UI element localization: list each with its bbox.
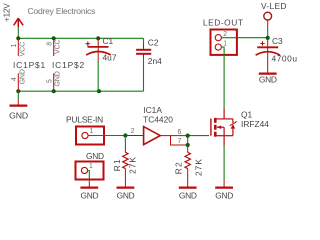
- pin 6 output stub: [160, 135, 188, 137]
- svg-text:V-LED: V-LED: [261, 1, 287, 11]
- svg-text:8: 8: [47, 42, 54, 46]
- svg-text:2: 2: [223, 31, 227, 38]
- svg-text:1: 1: [90, 128, 94, 135]
- wire PULSE-IN to node: [89, 135, 126, 137]
- wire source to ground: [223, 146, 225, 181]
- svg-text:GND: GND: [117, 190, 135, 200]
- svg-text:7: 7: [178, 138, 182, 145]
- ground GND left: [9, 91, 28, 120]
- wire GND connector to ground: [88, 171, 89, 181]
- junction bottom rail at C1: [97, 89, 101, 93]
- connector PULSE-IN: [66, 115, 104, 145]
- junction top rail at pin8: [52, 36, 56, 40]
- wire V-LED to junction: [267, 30, 269, 38]
- ground GND input: [80, 180, 98, 200]
- svg-text:GND: GND: [81, 190, 99, 200]
- svg-text:PULSE-IN: PULSE-IN: [66, 115, 103, 125]
- connector GND input: [76, 151, 105, 180]
- wire +12V stub: [17, 27, 19, 38]
- ground GND Q1: [215, 180, 233, 200]
- wire bottom GND rail: [18, 90, 143, 92]
- svg-text:GND: GND: [259, 75, 277, 85]
- svg-text:TC4420: TC4420: [143, 115, 173, 125]
- svg-text:GND: GND: [9, 110, 28, 120]
- svg-text:GND: GND: [215, 190, 233, 200]
- wire gate: [188, 135, 209, 137]
- connector LED-OUT: [203, 17, 244, 55]
- IC1P$2 pin 5 GND: [47, 71, 62, 91]
- junction bottom rail at GND: [16, 89, 20, 93]
- wire drain from LED-OUT pin1: [222, 47, 225, 109]
- svg-text:GND: GND: [19, 69, 26, 84]
- svg-text:GND: GND: [179, 190, 197, 200]
- svg-text:VCC: VCC: [55, 39, 62, 54]
- svg-text:R2: R2: [174, 161, 184, 174]
- junction bottom rail at pin5: [52, 89, 56, 93]
- wire top VCC rail: [18, 37, 143, 39]
- svg-text:2: 2: [131, 128, 135, 135]
- svg-text:5: 5: [47, 79, 54, 83]
- svg-text:C2: C2: [148, 38, 159, 48]
- IC1P$2 pin 8 VCC: [47, 38, 62, 56]
- svg-text:27K: 27K: [127, 156, 137, 174]
- svg-text:Codrey Electronics: Codrey Electronics: [28, 6, 96, 16]
- junction V-LED node: [266, 36, 270, 40]
- svg-text:27K: 27K: [193, 158, 203, 176]
- supply V-LED symbol: [261, 1, 287, 30]
- IC1P$1 pin 4 GND: [11, 69, 26, 91]
- svg-text:VCC: VCC: [19, 42, 26, 57]
- capacitor C3: [256, 36, 298, 73]
- svg-text:GND: GND: [55, 71, 62, 86]
- junction top rail at +12V: [16, 36, 20, 40]
- wire output node vertical: [187, 136, 189, 145]
- svg-text:1: 1: [89, 163, 93, 170]
- capacitor C1: [86, 36, 117, 91]
- svg-text:LED-OUT: LED-OUT: [203, 17, 244, 27]
- svg-text:6: 6: [178, 129, 182, 136]
- svg-text:C3: C3: [272, 36, 283, 46]
- svg-text:C1: C1: [103, 36, 114, 46]
- ground GND R1: [117, 188, 135, 201]
- junction top rail at C1: [96, 36, 100, 40]
- svg-text:R1: R1: [112, 158, 122, 171]
- wire LED-OUT pin2 to V-LED node: [222, 37, 268, 39]
- svg-text:IRFZ44: IRFZ44: [241, 119, 269, 129]
- svg-text:GND: GND: [86, 151, 104, 161]
- svg-text:1: 1: [11, 44, 18, 48]
- ground GND C3: [259, 74, 277, 85]
- IC1P$1 pin 1 VCC: [11, 38, 26, 56]
- svg-text:+12V: +12V: [3, 3, 12, 22]
- capacitor C2: [136, 38, 162, 92]
- ground GND R2: [179, 188, 197, 201]
- resistor R2: [174, 145, 204, 187]
- svg-text:4: 4: [11, 77, 18, 81]
- resistor R1: [112, 136, 137, 187]
- supply +12V symbol: [14, 18, 23, 27]
- transistor Q1 IRFZ44: [211, 109, 237, 146]
- svg-text:IC1P$1: IC1P$1: [13, 60, 46, 70]
- junction pin6 node: [186, 134, 190, 138]
- svg-text:IC1P$2: IC1P$2: [52, 60, 85, 70]
- op-amp driver IC1A: [143, 105, 173, 144]
- junction pin7 node: [186, 143, 190, 147]
- pin 2 input stub: [125, 135, 143, 137]
- junction input node: [123, 133, 127, 137]
- pin 7 stub: [171, 136, 188, 145]
- svg-text:2n4: 2n4: [148, 56, 162, 66]
- svg-text:4700u: 4700u: [272, 54, 298, 64]
- svg-text:4u7: 4u7: [103, 53, 117, 63]
